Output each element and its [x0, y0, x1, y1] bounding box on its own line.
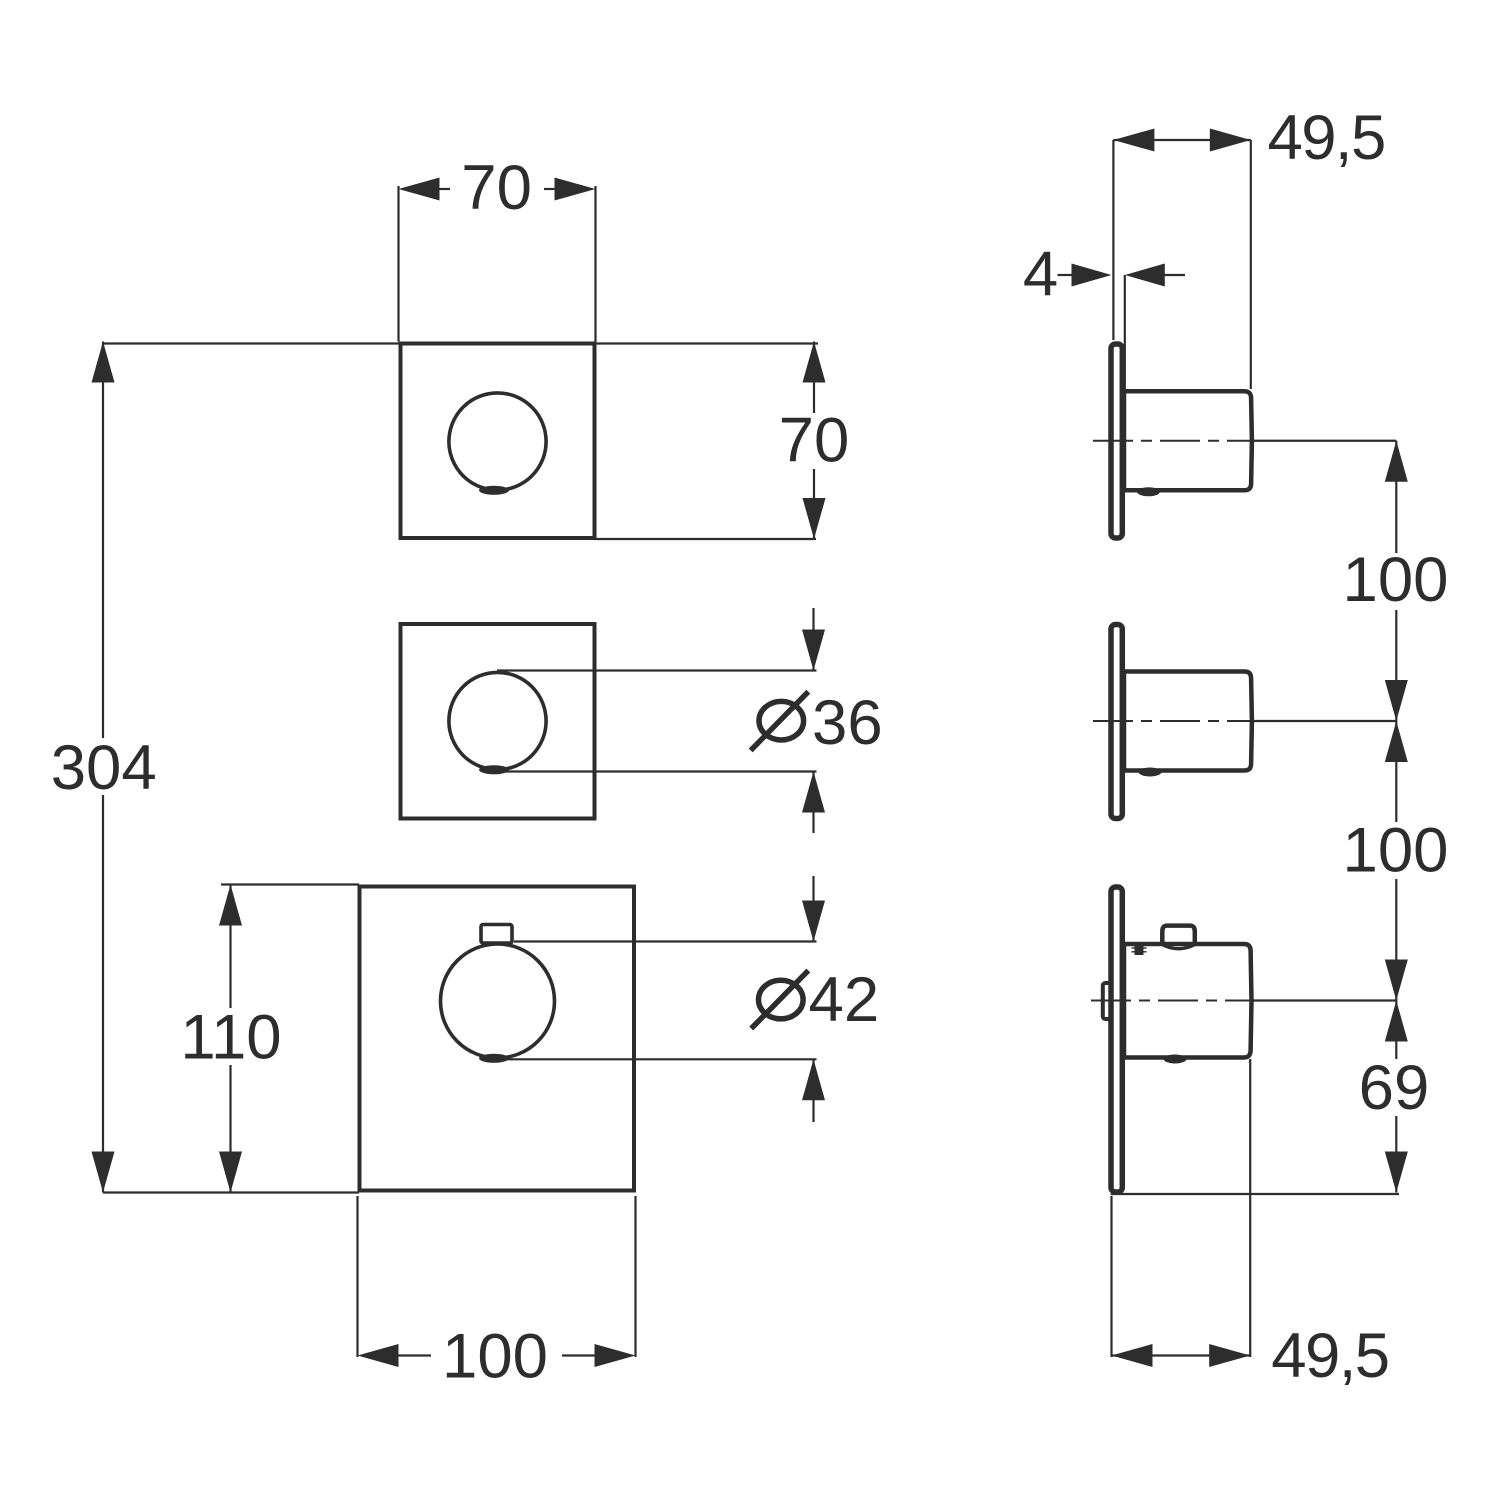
lens mark at bottom of circle3: [479, 1054, 509, 1063]
centerline middle unit: [1093, 720, 1251, 722]
dim 110: [229, 885, 231, 1193]
halo behind label 304: [48, 738, 158, 795]
lens mark at bottom of circle1: [479, 486, 509, 495]
svg-text:49,5: 49,5: [1271, 1321, 1388, 1391]
svg-text:100: 100: [442, 1321, 548, 1391]
dim 49,5 top: extension lines: [1112, 140, 1114, 340]
circle knob Ø36 of square2: [449, 672, 546, 769]
plate top unit: [1111, 344, 1122, 538]
svg-text:42: 42: [809, 965, 880, 1035]
knob bottom flange arc: [1163, 945, 1194, 949]
label Ø symbol of Ø36 (custom glyph): [751, 692, 809, 751]
tiny square marker inside bottom body: [1135, 946, 1144, 955]
lens mark at bottom of circle2: [479, 765, 509, 774]
lens mark under top unit body: [1137, 487, 1160, 496]
svg-text:49,5: 49,5: [1268, 103, 1385, 173]
tab handle on knob of square3: [481, 925, 512, 944]
svg-text:4: 4: [1023, 239, 1058, 309]
halo behind label 70 right: [780, 413, 848, 469]
dim 100 bottom: extension lines: [356, 1196, 358, 1357]
circle knob Ø36 of square1: [449, 393, 546, 490]
halo behind label 100 upper: [1342, 553, 1450, 610]
lens mark under bottom unit body: [1164, 1055, 1187, 1064]
dim 304 left: [102, 342, 104, 1193]
halo behind label 100 lower: [1342, 822, 1450, 879]
circle knob Ø42 of square3: [441, 944, 555, 1058]
knob on top of bottom unit: [1162, 926, 1195, 947]
small tab on plate left bottom unit: [1103, 983, 1111, 1019]
svg-text:100: 100: [1343, 545, 1449, 615]
svg-text:100: 100: [1343, 816, 1449, 886]
centerline bottom unit: [1091, 1000, 1250, 1002]
svg-text:69: 69: [1359, 1053, 1430, 1123]
plate middle unit: [1111, 625, 1122, 819]
right column dimension line: [1395, 441, 1397, 1193]
body cylinder bottom unit: [1124, 944, 1252, 1058]
dim Ø42 leaders: [514, 940, 817, 942]
dim 70 top: extension lines: [397, 186, 399, 342]
whisker marks beside tiny square: [1132, 947, 1147, 949]
svg-text:70: 70: [779, 405, 850, 475]
dim 70 top: arrows and stubs: [399, 178, 440, 201]
square3 bottom 100x110 faceplate: [360, 887, 635, 1191]
svg-text:36: 36: [812, 688, 883, 758]
svg-text:70: 70: [461, 153, 532, 223]
dim 4 plate thickness: [1058, 274, 1074, 276]
lens mark under middle unit body: [1139, 768, 1162, 777]
wire: top extension line across front view: [103, 342, 818, 344]
square1 top 70x70 faceplate: [401, 344, 595, 539]
plate bottom unit: [1111, 887, 1122, 1192]
label Ø symbol of Ø42 (custom glyph): [751, 971, 808, 1029]
wire: bottom extension line to 304 dim: [103, 1191, 359, 1193]
wire: extension line left of square3 top for 110 dim: [221, 883, 359, 885]
halo behind label 69: [1358, 1059, 1434, 1116]
dim 49,5 bottom: extension lines: [1110, 1196, 1112, 1357]
body cylinder middle unit: [1124, 672, 1252, 771]
bottom extension line right side: [1111, 1193, 1399, 1195]
dim 100 bottom: arrows and stubs: [358, 1344, 399, 1367]
halo behind label 110: [176, 1008, 286, 1065]
svg-text:304: 304: [51, 733, 157, 803]
dim 70 right: line and arrows: [813, 342, 815, 540]
centerline top unit: [1093, 440, 1251, 442]
square2 middle 70x70 faceplate: [401, 624, 595, 819]
dim Ø36 leaders: [497, 669, 817, 671]
body cylinder top unit: [1124, 391, 1252, 490]
svg-text:110: 110: [180, 1002, 281, 1072]
wire: extension line right of square1 bottom: [594, 538, 816, 540]
